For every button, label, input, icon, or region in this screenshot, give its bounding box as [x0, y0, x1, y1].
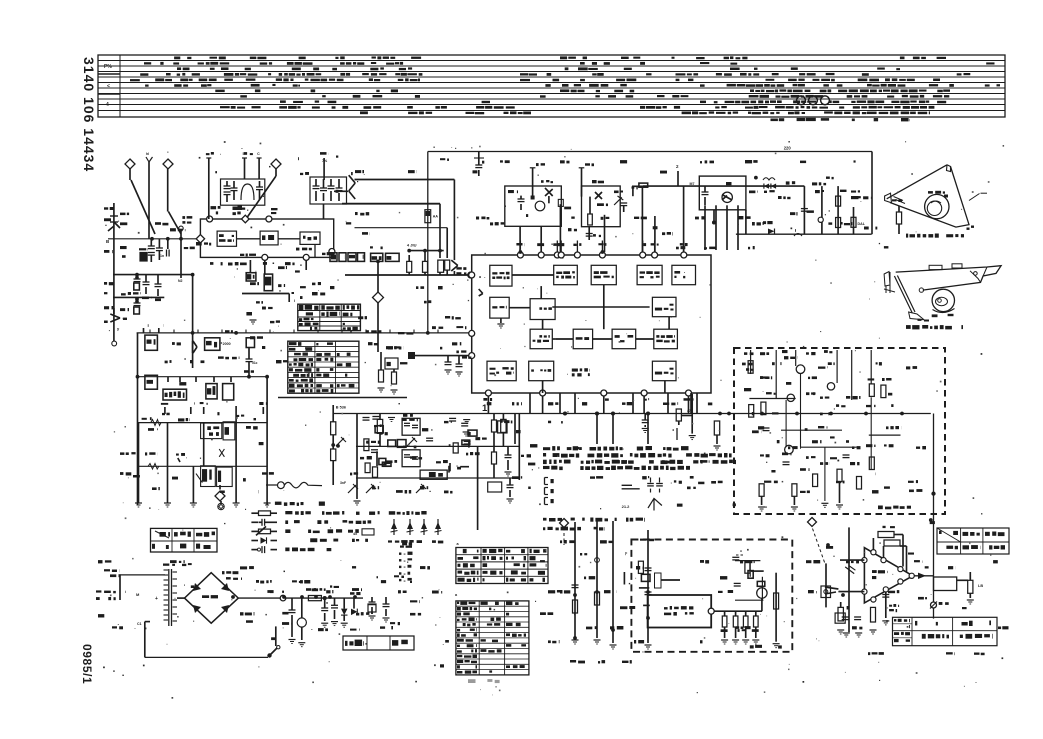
svg-text:AA: AA	[433, 215, 439, 219]
svg-text:21.2: 21.2	[622, 504, 631, 509]
svg-text:220: 220	[784, 146, 792, 151]
svg-text:DAL: DAL	[858, 222, 866, 226]
svg-text:C1: C1	[137, 622, 142, 626]
svg-text:P%: P%	[104, 64, 112, 70]
svg-text:=: =	[404, 579, 406, 583]
svg-text:3nF: 3nF	[340, 481, 346, 485]
svg-text:3140 106 14434: 3140 106 14434	[81, 57, 97, 172]
svg-text:+: +	[155, 596, 158, 602]
svg-text:LB: LB	[978, 584, 983, 588]
svg-text:=: =	[404, 553, 406, 557]
svg-text:C: C	[257, 152, 260, 156]
svg-text:=: =	[404, 566, 406, 570]
svg-text:N2: N2	[178, 279, 183, 283]
svg-text:I: I	[294, 298, 295, 303]
svg-text:hl: hl	[146, 152, 149, 156]
svg-text:4 JIU: 4 JIU	[407, 243, 417, 248]
svg-text:4: 4	[106, 102, 109, 108]
svg-text:1n: 1n	[160, 254, 164, 258]
svg-text:<: <	[107, 84, 110, 90]
svg-text:7%: 7%	[322, 159, 328, 163]
svg-text:M7: M7	[690, 182, 695, 186]
svg-text:2000: 2000	[223, 342, 231, 346]
svg-text:51c: 51c	[252, 361, 258, 365]
svg-text:B 536: B 536	[336, 405, 346, 409]
svg-text:0985/1: 0985/1	[80, 644, 94, 684]
svg-text:=: =	[404, 559, 406, 563]
